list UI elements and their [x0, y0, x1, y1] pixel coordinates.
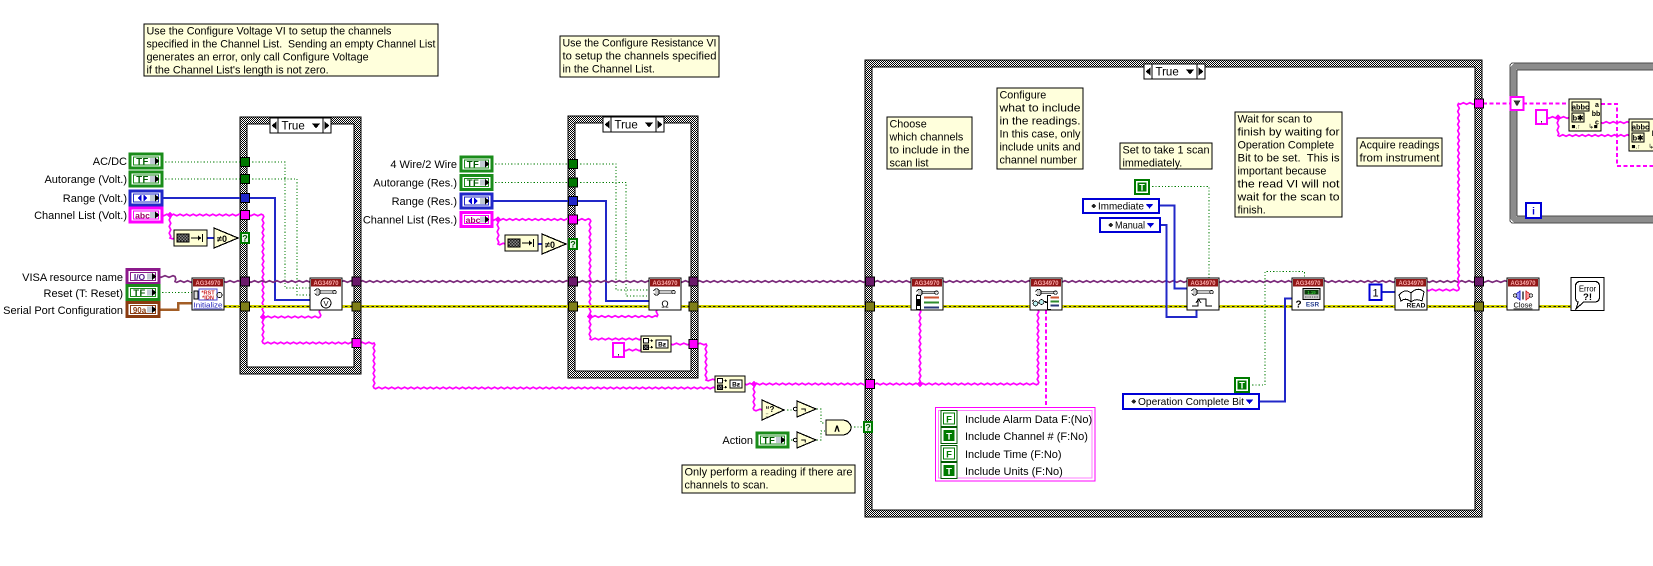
svg-text:TF: TF — [467, 178, 480, 189]
not equal to zero 2 — [542, 234, 566, 254]
terminal: Range (Volt.) — [130, 191, 162, 205]
svg-text:90a: 90a — [133, 306, 147, 315]
tunnel: VISA left structure 2 — [569, 277, 578, 286]
tunnel: scan string left structure 3 — [866, 380, 875, 389]
svg-text:*IDN: *IDN — [202, 295, 214, 301]
svg-text:finish.: finish. — [1238, 204, 1266, 216]
for loop border — [1510, 63, 1653, 223]
auto-index tunnel on for loop — [1511, 97, 1524, 110]
svg-text:in the Channel List.: in the Channel List. — [563, 63, 655, 75]
wire: VISA between structures 1 and 2 — [357, 281, 572, 283]
terminal: Range (Res.) — [461, 194, 492, 208]
convert icon inside structure 2 — [641, 336, 671, 352]
svg-text:Choose: Choose — [890, 118, 927, 130]
svg-text:TF: TF — [133, 288, 146, 299]
case structure 3 selector True — [1144, 64, 1205, 79]
wire: scan list string inside structure 3 — [872, 310, 1039, 385]
cluster bool: Include Alarm Data — [941, 411, 957, 427]
wire: match pattern 1 output a down right — [1601, 104, 1653, 166]
svg-text:I/O: I/O — [134, 272, 146, 282]
svg-text:Range (Res.): Range (Res.) — [392, 196, 457, 208]
svg-text:AG34970: AG34970 — [915, 280, 940, 287]
svg-text:abbc: abbc — [1572, 102, 1589, 111]
tunnel: readings right structure 3 — [1475, 99, 1484, 108]
wire: boolean 4wire inside structure 2 — [577, 164, 649, 290]
wire: Manual enum to Initiate — [1160, 225, 1197, 317]
svg-text:1.19: 1.19 — [1307, 290, 1316, 295]
case structure 1 border — [240, 117, 361, 374]
comment: Configure what to include — [997, 88, 1083, 169]
svg-text:a: a — [1595, 102, 1599, 109]
svg-text:■.↑: ■.↑ — [1632, 144, 1641, 151]
wire: readings string from Read up to tunnel — [1427, 103, 1478, 291]
enum constant Manual — [1100, 218, 1160, 232]
terminal: Channel List (Volt.) — [130, 208, 162, 222]
svg-text:Set to take 1 scan: Set to take 1 scan — [1123, 144, 1210, 156]
svg-text:Bit to be set. This is: Bit to be set. This is — [1238, 152, 1341, 164]
convert icon after structure 2 — [715, 376, 745, 392]
svg-text:Wait for scan to: Wait for scan to — [1238, 113, 1313, 125]
tunnel: Range on structure 1 — [241, 194, 250, 203]
wire: channel list res to convert 2 — [694, 343, 715, 381]
svg-text:Range (Volt.): Range (Volt.) — [63, 193, 127, 205]
case selector terminal structure 3 — [864, 422, 872, 433]
wire: and gate to case selector 3 — [851, 426, 864, 428]
svg-text:VISA resource name: VISA resource name — [22, 272, 123, 284]
wire: error Initialize to structure 1 — [224, 305, 244, 308]
wire: range res inside structure 2 — [577, 201, 649, 301]
VI: Initialize AG34970 — [192, 278, 224, 310]
enum constant Operation Complete Bit — [1123, 394, 1259, 409]
tunnel: channel list right structure 2 — [689, 340, 698, 349]
terminal: Serial Port Configuration — [127, 303, 159, 317]
cluster bool: Include Units — [941, 463, 957, 479]
svg-text:to include in the: to include in the — [890, 144, 970, 156]
terminal: Autorange (Res.) — [461, 176, 492, 190]
cluster bool: Include Channel # — [941, 428, 957, 444]
svg-text:Immediate: Immediate — [1098, 202, 1144, 213]
svg-text:what to include: what to include — [998, 102, 1080, 114]
VI: ESR wait AG34970 — [1292, 278, 1324, 311]
wire: Channel List (Volt.) to structure 1 — [162, 214, 244, 216]
tunnel: error left structure 2 — [569, 302, 578, 311]
terminal: 4 Wire/2 Wire — [461, 157, 492, 171]
wire: channel list branch to string length — [169, 215, 175, 239]
wire: string length 2 to not-equal-zero 2 — [538, 243, 542, 245]
enum constant Immediate — [1083, 199, 1159, 213]
svg-text:AG34970: AG34970 — [196, 280, 221, 287]
wire: channel list branch to Configure Resistance — [590, 310, 658, 317]
svg-text:Use the Configure Voltage VI t: Use the Configure Voltage VI to setup th… — [147, 25, 392, 37]
wire: not gate to and gate — [817, 409, 826, 423]
case structure 1 selector True — [270, 118, 331, 133]
svg-text:READ: READ — [1407, 303, 1426, 310]
svg-text:?: ? — [1295, 300, 1301, 311]
svg-text:Close: Close — [1514, 301, 1533, 310]
svg-text:Autorange (Res.): Autorange (Res.) — [373, 178, 457, 190]
wire: Immediate enum to Initiate — [1159, 206, 1187, 289]
and gate — [826, 420, 851, 435]
wire: separator constant to match pattern — [1547, 117, 1569, 119]
svg-text:Channel List (Volt.): Channel List (Volt.) — [34, 210, 127, 222]
boolean constant T for ESR — [1235, 378, 1249, 392]
svg-text:■.↑: ■.↑ — [1572, 124, 1581, 131]
tunnel: channel list res on structure 2 — [569, 215, 578, 224]
wire: Action to not gate 2 — [788, 439, 795, 441]
wire: readings array inside loop — [1523, 103, 1569, 105]
empty string check — [762, 400, 784, 420]
svg-text:?: ? — [242, 234, 248, 244]
terminal: Autorange (Volt.) — [130, 172, 162, 186]
error handler icon — [1571, 278, 1604, 311]
wire: Serial Port Configuration to Initialize — [159, 303, 193, 310]
wire: not-equal-zero to case selector 1 — [238, 237, 243, 239]
svg-text:Reset (T: Reset): Reset (T: Reset) — [44, 288, 123, 300]
wire: VISA Initialize to structure 1 — [224, 281, 244, 283]
svg-text:the read VI will not: the read VI will not — [1238, 178, 1340, 190]
wire: VISA resource name to Initialize — [159, 276, 193, 283]
svg-text:scan list: scan list — [890, 157, 929, 169]
VI: Configure Scan List AG34970 — [911, 278, 943, 310]
svg-text:Bƶ: Bƶ — [732, 381, 741, 388]
svg-text:TF: TF — [763, 436, 776, 447]
wire: error inside structure 2 — [577, 305, 691, 308]
case selector terminal structure 1 — [241, 233, 249, 244]
svg-text:bb: bb — [1592, 111, 1601, 118]
svg-text:,: , — [617, 347, 620, 357]
svg-text:Operation Complete Bit: Operation Complete Bit — [1138, 397, 1244, 408]
not gate 2 — [793, 432, 816, 448]
svg-text:Include Alarm Data F:(No): Include Alarm Data F:(No) — [965, 414, 1092, 426]
svg-text:¬: ¬ — [801, 404, 806, 414]
svg-text:TF: TF — [136, 157, 149, 168]
tunnel: VISA right structure 2 — [689, 277, 698, 286]
svg-text:specified in the Channel List.: specified in the Channel List. Sending a… — [147, 38, 436, 50]
tunnel: VISA right structure 3 — [1475, 277, 1484, 286]
svg-text:True: True — [282, 121, 305, 133]
svg-text:Acquire readings: Acquire readings — [1360, 139, 1441, 151]
wire: branch up to Configure Scan List — [919, 310, 921, 384]
tunnel: error right structure 2 — [689, 302, 698, 311]
wire: empty string to not gate — [784, 409, 795, 411]
tunnel: VISA right structure 1 — [352, 277, 361, 286]
string constant comma in loop — [1536, 110, 1547, 124]
svg-text:F: F — [946, 449, 952, 460]
svg-text:Include Time (F:No): Include Time (F:No) — [965, 449, 1062, 461]
numeric constant 1 — [1370, 285, 1382, 301]
wire: convert 2 output to structure 3 — [745, 383, 869, 385]
wire: boolean autorange res inside structure 2 — [577, 183, 649, 297]
comment: Acquire readings — [1357, 138, 1442, 166]
svg-text:AG34970: AG34970 — [314, 280, 339, 287]
wire: not-equal-zero 2 to case selector 2 — [566, 243, 570, 245]
svg-text:T: T — [946, 431, 952, 442]
wire: readings cluster to Configure Readings — [1045, 310, 1047, 407]
svg-text:generates an error, only call: generates an error, only call Configure … — [147, 51, 369, 63]
svg-text:≠0: ≠0 — [545, 240, 555, 250]
tunnel: range res on structure 2 — [569, 197, 578, 206]
wire: Range (Res.) to structure 2 — [492, 200, 572, 202]
svg-text:finish by waiting for: finish by waiting for — [1238, 126, 1340, 138]
svg-text:b✱: b✱ — [1573, 113, 1584, 122]
string length 1 — [174, 230, 207, 246]
case structure 2 border — [568, 116, 698, 378]
svg-text:AG34970: AG34970 — [1034, 280, 1059, 287]
comment: Choose which channels — [887, 117, 972, 169]
svg-text:¬: ¬ — [801, 435, 806, 445]
tunnel: VISA left structure 3 — [866, 277, 875, 286]
tunnel: Channel List on structure 1 — [241, 211, 250, 220]
wire: constant 1 to Read — [1381, 291, 1395, 293]
svg-text:4 Wire/2 Wire: 4 Wire/2 Wire — [390, 159, 457, 171]
string constant comma structure 2 — [613, 343, 624, 357]
case selector terminal structure 2 — [569, 239, 577, 250]
svg-text:i: i — [1532, 206, 1535, 217]
svg-text:TF: TF — [136, 175, 149, 186]
terminal: Channel List (Res.) — [461, 213, 492, 227]
wire: match pattern 1 output to match pattern 2 — [1601, 122, 1629, 124]
wire: branch to match pattern 2 lower input — [1557, 118, 1629, 137]
match pattern 1 — [1569, 99, 1601, 131]
wire: string length to not-equal-zero — [207, 237, 214, 239]
wire: convert 1 to tunnel structure 2 — [671, 343, 693, 345]
comment: Only perform a reading — [682, 465, 855, 493]
svg-text:AG34970: AG34970 — [1296, 280, 1321, 287]
svg-text:TF: TF — [467, 160, 480, 171]
wire: error Close to error handler — [1539, 305, 1571, 308]
case structure 3 border — [865, 60, 1482, 517]
terminal: VISA resource name — [127, 270, 159, 284]
match pattern 2 — [1629, 119, 1653, 151]
tunnel: error left structure 3 — [866, 302, 875, 311]
wire: error between structures 1 and 2 — [357, 305, 572, 308]
svg-text:abbc: abbc — [1632, 122, 1649, 131]
svg-text:?: ? — [865, 423, 871, 433]
wire: T constant 2 to ESR wait — [1249, 272, 1305, 386]
comment: Use the Configure Resistance VI — [560, 36, 719, 77]
wire: channel list branch to Configure Voltage — [263, 310, 321, 318]
wire: not gate 2 to and gate — [817, 431, 826, 440]
svg-text:Autorange (Volt.): Autorange (Volt.) — [44, 174, 127, 186]
VI: Configure Readings AG34970 — [1030, 278, 1062, 310]
svg-text:channels to scan.: channels to scan. — [685, 479, 769, 491]
terminal: Action — [757, 433, 788, 447]
wire: 4 Wire/2 Wire boolean to structure 2 — [492, 163, 572, 165]
tunnel: error left structure 1 — [241, 302, 250, 311]
tunnel: VISA left structure 1 — [241, 277, 250, 286]
wire: AC/DC boolean to structure 1 — [162, 161, 244, 163]
wire: VISA inside structure 3 — [872, 281, 1478, 283]
svg-text:Manual: Manual — [1115, 221, 1145, 232]
wire: Operation Complete Bit enum to ESR — [1259, 299, 1292, 402]
svg-text:Initialize: Initialize — [194, 303, 223, 310]
svg-text:in the readings.: in the readings. — [1000, 115, 1081, 127]
wire: channel list (volt) long run to convert — [357, 342, 715, 389]
svg-text:ESR: ESR — [1306, 302, 1320, 309]
comment: Set to take 1 scan — [1120, 143, 1212, 169]
svg-text:In this case, only: In this case, only — [1000, 128, 1082, 140]
tunnel: error right structure 1 — [352, 302, 361, 311]
svg-text:≠0: ≠0 — [217, 234, 227, 244]
VI: Close AG34970 — [1507, 278, 1539, 310]
wire: VISA to Close — [1482, 281, 1507, 283]
svg-text:wait for the scan to: wait for the scan to — [1236, 191, 1339, 203]
wire: branch to empty string check — [753, 384, 762, 411]
svg-text:abc: abc — [466, 215, 481, 225]
wire: Channel List inside structure 1 — [249, 214, 353, 344]
tunnel: error right structure 3 — [1475, 302, 1484, 311]
svg-text:which channels: which channels — [889, 131, 964, 143]
svg-text:Serial Port Configuration: Serial Port Configuration — [3, 305, 123, 317]
tunnel: AC/DC on structure 1 — [241, 158, 250, 167]
loop iteration terminal — [1526, 203, 1541, 218]
wire: error to Close — [1482, 305, 1507, 308]
svg-text:↳■: ↳■ — [1648, 143, 1653, 151]
svg-text:AG34970: AG34970 — [1511, 280, 1536, 287]
cluster constant include readings options — [936, 408, 1096, 482]
wire: Reset boolean to Initialize — [159, 292, 193, 294]
svg-text:Action: Action — [722, 435, 753, 447]
boolean constant T for Initiate — [1135, 180, 1149, 194]
wire: error between structures 2 and 3 — [694, 305, 869, 308]
svg-text:include units and: include units and — [1000, 141, 1081, 153]
svg-text:Bƶ: Bƶ — [658, 341, 667, 348]
svg-text:T: T — [1239, 381, 1245, 391]
not gate 1 — [793, 401, 816, 417]
svg-text:1: 1 — [1372, 287, 1378, 299]
svg-text:AG34970: AG34970 — [1399, 280, 1424, 287]
tunnel: Autorange on structure 1 — [241, 175, 250, 184]
VI: Configure Resistance AG34970 — [649, 278, 681, 311]
svg-text:T: T — [1139, 183, 1145, 193]
wire: error inside structure 1 — [249, 305, 353, 308]
svg-text:↳■: ↳■ — [1588, 123, 1597, 131]
case structure 2 selector True — [603, 117, 664, 132]
wire: boolean Autorange inside structure 1 — [249, 179, 311, 295]
cluster bool: Include Time — [941, 446, 957, 462]
tunnel: 4wire on structure 2 — [569, 160, 578, 169]
svg-text:,: , — [1540, 114, 1543, 124]
svg-text:Operation Complete: Operation Complete — [1238, 139, 1335, 151]
svg-text:True: True — [615, 120, 638, 132]
not equal to zero 1 — [214, 228, 238, 248]
wire: error inside structure 3 — [872, 305, 1478, 308]
wire: VISA inside structure 1 — [249, 281, 353, 283]
wire: Range (Volt.) to structure 1 — [162, 197, 244, 199]
VI: Configure Voltage AG34970 — [310, 278, 342, 310]
svg-text:from instrument: from instrument — [1360, 152, 1440, 164]
svg-text:AC/DC: AC/DC — [93, 156, 127, 168]
svg-text:Configure: Configure — [1000, 89, 1047, 101]
VI: Initiate AG34970 — [1187, 278, 1219, 310]
svg-text:?!: ?! — [1583, 292, 1592, 303]
wire: VISA inside structure 2 — [577, 281, 691, 283]
svg-text:Only perform a reading if ther: Only perform a reading if there are — [685, 466, 853, 478]
svg-text:∧: ∧ — [833, 423, 840, 434]
svg-text:V: V — [323, 299, 328, 308]
svg-text:important because: important because — [1238, 165, 1327, 177]
svg-text:Use the Configure Resistance V: Use the Configure Resistance VI — [563, 37, 717, 49]
svg-text:F: F — [946, 414, 952, 425]
svg-text:Include Channel # (F:No): Include Channel # (F:No) — [965, 431, 1088, 443]
wire: boolean AC/DC inside structure 1 — [249, 162, 311, 288]
svg-text:b✱: b✱ — [1633, 133, 1644, 142]
wire: Range inside structure 1 — [249, 198, 311, 300]
svg-text:T: T — [946, 466, 952, 477]
svg-text:::: :: — [765, 413, 769, 419]
terminal: AC/DC — [130, 154, 162, 168]
wire: T constant to Initiate — [1149, 187, 1209, 279]
wire: Autorange (Volt.) boolean to structure 1 — [162, 178, 244, 180]
comment: Wait for scan to finish — [1235, 112, 1342, 217]
svg-text:Channel List (Res.): Channel List (Res.) — [363, 215, 457, 227]
wire: channel list res inside structure 2 — [577, 219, 641, 340]
comment: Use the Configure Voltage VI — [144, 24, 438, 76]
svg-text:channel number: channel number — [1000, 154, 1078, 166]
VI: Read AG34970 — [1395, 278, 1427, 310]
svg-text:immediately.: immediately. — [1123, 157, 1183, 169]
svg-text:Ω: Ω — [661, 300, 669, 311]
svg-text:abc: abc — [135, 211, 150, 221]
wire: readings to for loop — [1483, 103, 1513, 105]
string length 2 — [505, 235, 538, 251]
wire: Channel List (Res.) to structure 2 — [492, 219, 572, 221]
wire: string constant to convert 1 — [624, 349, 641, 351]
wire: channel list res branch to string length 2 — [497, 220, 505, 245]
wire: Autorange (Res.) to structure 2 — [492, 182, 572, 184]
terminal: Reset (T: Reset) — [127, 286, 159, 300]
svg-text:True: True — [1156, 67, 1179, 79]
svg-text:AG34970: AG34970 — [653, 280, 678, 287]
svg-text:if the Channel List's length i: if the Channel List's length is not zero… — [147, 64, 329, 76]
svg-text:AG34970: AG34970 — [1191, 280, 1216, 287]
tunnel: channel list right structure 1 — [352, 339, 361, 348]
svg-text:to setup the channels specifie: to setup the channels specified — [563, 50, 717, 62]
svg-text:Include Units (F:No): Include Units (F:No) — [965, 466, 1063, 478]
tunnel: autorange res on structure 2 — [569, 178, 578, 187]
svg-text:?: ? — [570, 240, 576, 250]
wire: VISA between structures 2 and 3 — [694, 281, 869, 283]
